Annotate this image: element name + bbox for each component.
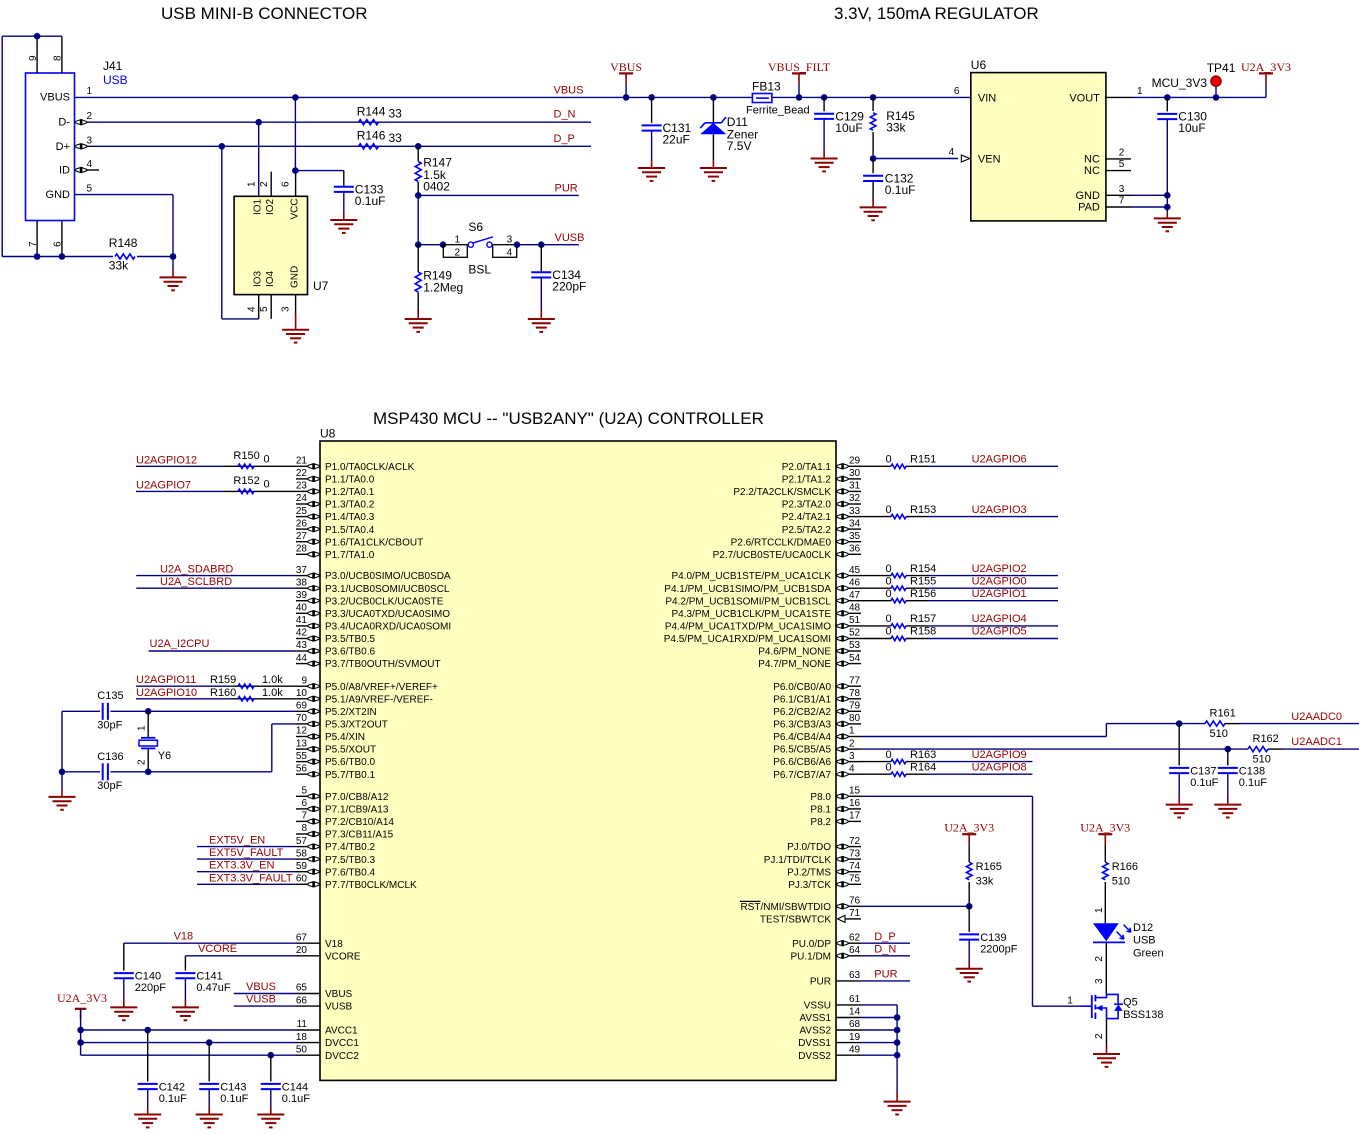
svg-text:NC: NC [1084, 165, 1100, 177]
svg-text:11: 11 [297, 1019, 308, 1030]
resistor R149 [417, 245, 419, 272]
J41 pin2 glyph [75, 120, 88, 124]
wire R147 to VUSB row [417, 195, 419, 244]
svg-text:IO3: IO3 [253, 270, 264, 287]
svg-text:7: 7 [1119, 196, 1125, 207]
svg-text:D_N: D_N [554, 109, 576, 121]
ground U6 [1166, 207, 1168, 212]
U8 pin 56 P5.7/TB0.1 [296, 773, 307, 775]
capacitor C139 [968, 906, 970, 932]
svg-text:10uF: 10uF [1178, 121, 1205, 135]
U8 pin 36 P2.7/UCB0STE/UCA0CLK [849, 553, 861, 555]
U8 pin 49 DVSS2 [836, 1054, 861, 1056]
capacitor C130 [1164, 94, 1171, 101]
svg-text:0: 0 [886, 575, 892, 587]
svg-text:23: 23 [296, 481, 308, 492]
wire VEN net [873, 158, 958, 160]
svg-text:0: 0 [886, 626, 892, 638]
resistor R154 [861, 575, 891, 577]
net VBUS MCU [234, 993, 296, 995]
svg-text:U2AGPIO4: U2AGPIO4 [972, 613, 1027, 625]
svg-text:4: 4 [949, 147, 955, 158]
svg-text:6: 6 [301, 798, 307, 809]
U8 pin 32 P2.3/TA2.0 [849, 503, 861, 505]
svg-text:62: 62 [849, 932, 861, 943]
svg-text:61: 61 [849, 994, 861, 1005]
svg-text:PU.0/DP: PU.0/DP [792, 939, 831, 950]
wire D_N net [88, 121, 592, 123]
svg-text:C135: C135 [97, 690, 123, 702]
svg-text:D+: D+ [56, 141, 70, 153]
junction VCC C133 [292, 167, 299, 174]
svg-text:1.0k: 1.0k [262, 674, 283, 686]
U8 pin 46 P4.1/PM_UCB1SIMO/PM_UCB1SDA [849, 587, 861, 589]
svg-text:510: 510 [1210, 728, 1228, 740]
capacitor C135 [62, 710, 100, 712]
svg-text:GND: GND [290, 266, 301, 288]
svg-text:PU.1/DM: PU.1/DM [790, 951, 831, 962]
svg-text:P8.2: P8.2 [810, 817, 831, 828]
U8 pin 2 P6.5/CB5/A5 [849, 748, 861, 750]
U8 pin 45 P4.0/PM_UCB1STE/PM_UCA1CLK [849, 575, 861, 577]
U6 pin1 VOUT [1106, 96, 1131, 98]
svg-text:0: 0 [886, 749, 892, 761]
svg-text:55: 55 [296, 751, 308, 762]
U8 pin 50 DVCC2 [296, 1054, 320, 1056]
svg-text:0: 0 [886, 504, 892, 516]
svg-text:30pF: 30pF [97, 780, 122, 792]
svg-text:39: 39 [296, 590, 308, 601]
svg-text:U2AADC1: U2AADC1 [1291, 736, 1342, 748]
svg-text:R159: R159 [210, 674, 236, 686]
svg-text:C143: C143 [220, 1082, 246, 1094]
svg-text:P7.1/CB9/A13: P7.1/CB9/A13 [325, 805, 389, 816]
svg-text:3: 3 [87, 135, 93, 146]
capacitor C134 [540, 245, 542, 273]
svg-text:IO1: IO1 [253, 198, 264, 215]
svg-text:C137: C137 [1190, 766, 1216, 778]
svg-text:U2AGPIO10: U2AGPIO10 [136, 687, 197, 699]
svg-text:51: 51 [849, 615, 861, 626]
svg-text:33: 33 [389, 131, 403, 145]
U7 pin4 lead IO3 [258, 295, 260, 319]
svg-text:68: 68 [849, 1019, 861, 1030]
J41 pin4 glyph ID stub [75, 168, 88, 172]
svg-text:72: 72 [849, 836, 861, 847]
svg-text:BSS138: BSS138 [1123, 1009, 1163, 1021]
svg-text:50: 50 [296, 1044, 308, 1055]
svg-text:74: 74 [849, 861, 861, 872]
wire VBUS to VCC [294, 97, 296, 170]
U6 pin4 VEN glyph [961, 155, 970, 162]
svg-text:5: 5 [1119, 159, 1125, 170]
svg-text:P3.2/UCB0CLK/UCA0STE: P3.2/UCB0CLK/UCA0STE [325, 596, 444, 607]
svg-text:P7.7/TB0CLK/MCLK: P7.7/TB0CLK/MCLK [325, 880, 417, 891]
svg-text:33: 33 [849, 506, 861, 517]
U8 pin 24 P1.3/TA0.2 [296, 503, 307, 505]
svg-text:P5.4/XIN: P5.4/XIN [325, 732, 365, 743]
svg-text:8: 8 [301, 823, 307, 834]
svg-text:3: 3 [507, 234, 513, 245]
svg-text:R148: R148 [109, 236, 138, 250]
svg-text:2200pF: 2200pF [980, 944, 1018, 956]
svg-text:0: 0 [264, 479, 270, 491]
svg-text:P7.0/CB8/A12: P7.0/CB8/A12 [325, 792, 389, 803]
svg-text:0.47uF: 0.47uF [196, 982, 231, 994]
svg-text:16: 16 [849, 798, 861, 809]
svg-text:VCORE: VCORE [325, 951, 361, 962]
svg-text:Q5: Q5 [1123, 996, 1138, 1008]
net U2AGPIO11 wire [136, 685, 232, 687]
svg-text:75: 75 [849, 874, 861, 885]
svg-text:57: 57 [296, 836, 308, 847]
U8 pin 9 P5.0/A8/VREF+/VEREF+ [296, 685, 307, 687]
U8 pin 35 P2.6/RTCCLK/DMAE0 [849, 541, 861, 543]
RST overline [740, 900, 761, 902]
svg-text:33k: 33k [976, 876, 994, 888]
svg-text:0: 0 [886, 563, 892, 575]
wire D_P net [88, 145, 592, 147]
U8 pin 7 P7.2/CB10/A14 [296, 820, 307, 822]
svg-text:P3.6/TB0.6: P3.6/TB0.6 [325, 647, 375, 658]
svg-text:6: 6 [281, 181, 292, 187]
resistor R162 [1228, 748, 1248, 750]
U8 pin 34 P2.5/TA2.2 [849, 528, 861, 530]
U8 pin 40 P3.3/UCA0TXD/UCA0SIMO [296, 612, 307, 614]
resistor R155 [861, 587, 891, 589]
junction J41 pin6 [59, 253, 66, 260]
capacitor C142 [144, 1027, 151, 1034]
svg-text:19: 19 [849, 1032, 861, 1043]
U8 pin 14 AVSS1 [836, 1017, 861, 1019]
svg-text:VBUS: VBUS [325, 989, 353, 1000]
svg-text:17: 17 [849, 811, 861, 822]
U8 pin 26 P1.5/TA0.4 [296, 528, 307, 530]
svg-text:P6.7/CB7/A7: P6.7/CB7/A7 [773, 770, 831, 781]
U8 pin 33 P2.4/TA2.1 [849, 516, 861, 518]
svg-text:60: 60 [296, 874, 308, 885]
U8 pin 76 RST/NMI/SBWTDIO [849, 905, 861, 907]
svg-text:TP41: TP41 [1207, 61, 1236, 75]
svg-text:S6: S6 [468, 220, 483, 234]
U8 pin 53 P4.6/PM_NONE [849, 650, 861, 652]
svg-text:U2AGPIO8: U2AGPIO8 [972, 761, 1027, 773]
svg-text:EXT3.3V_EN: EXT3.3V_EN [209, 860, 274, 872]
svg-text:3: 3 [1119, 184, 1125, 195]
svg-text:2: 2 [1094, 1033, 1105, 1039]
svg-text:1: 1 [455, 234, 461, 245]
svg-text:C142: C142 [159, 1082, 185, 1094]
svg-text:C136: C136 [97, 751, 123, 763]
J41 pin 7 lead [36, 221, 38, 257]
svg-text:D_P: D_P [874, 931, 895, 943]
U8 pin 57 P7.4/TB0.2 [296, 846, 307, 848]
svg-text:P3.3/UCA0TXD/UCA0SIMO: P3.3/UCA0TXD/UCA0SIMO [325, 609, 450, 620]
svg-text:VCORE: VCORE [198, 943, 237, 955]
junction J41 pin7 [34, 253, 41, 260]
svg-text:P5.5/XOUT: P5.5/XOUT [325, 745, 376, 756]
svg-text:IO4: IO4 [265, 270, 276, 287]
net EXT5V_FAULT [197, 858, 296, 860]
U8 pin 42 P3.5/TB0.5 [296, 638, 307, 640]
resistor R153 [861, 516, 891, 518]
svg-text:48: 48 [849, 603, 861, 614]
svg-text:29: 29 [849, 456, 861, 467]
capacitor C136 [62, 771, 100, 773]
svg-text:44: 44 [296, 653, 308, 664]
svg-text:P2.3/TA2.0: P2.3/TA2.0 [782, 500, 832, 511]
svg-text:R156: R156 [910, 588, 936, 600]
svg-text:P6.6/CB6/A6: P6.6/CB6/A6 [773, 757, 831, 768]
transistor Q5 BSS138 [1081, 1005, 1092, 1007]
resistor R166 [1104, 844, 1106, 862]
net U2AGPIO12 wire [136, 465, 224, 467]
ground C131 [651, 131, 653, 160]
net EXT5V_EN [197, 846, 296, 848]
U8 pin 67 V18 [296, 942, 320, 944]
svg-text:0: 0 [886, 454, 892, 466]
wire VBUS net [75, 96, 296, 98]
wire DVCC2 [81, 1054, 296, 1056]
svg-text:P1.5/TA0.4: P1.5/TA0.4 [325, 525, 375, 536]
svg-text:79: 79 [849, 701, 861, 712]
svg-text:28: 28 [296, 544, 308, 555]
svg-text:U2AGPIO3: U2AGPIO3 [972, 504, 1027, 516]
svg-text:P1.6/TA1CLK/CBOUT: P1.6/TA1CLK/CBOUT [325, 537, 423, 548]
svg-text:U2AGPIO2: U2AGPIO2 [972, 563, 1027, 575]
U8 pin 77 P6.0/CB0/A0 [849, 685, 861, 687]
wire Q5 source to ground [1106, 1019, 1108, 1046]
svg-text:U8: U8 [320, 427, 336, 441]
svg-text:U2AADC0: U2AADC0 [1291, 711, 1342, 723]
svg-text:BSL: BSL [468, 263, 491, 277]
svg-text:Y6: Y6 [158, 750, 171, 762]
svg-text:0.1uF: 0.1uF [1239, 777, 1267, 789]
svg-text:0.1uF: 0.1uF [159, 1093, 187, 1105]
wire LED to Q5 [1105, 942, 1107, 994]
svg-text:AVSS2: AVSS2 [800, 1026, 832, 1037]
svg-text:P4.3/PM_UCB1CLK/PM_UCA1STE: P4.3/PM_UCB1CLK/PM_UCA1STE [671, 609, 831, 620]
svg-text:P6.5/CB5/A5: P6.5/CB5/A5 [773, 745, 831, 756]
resistor R146 [359, 144, 379, 149]
svg-text:18: 18 [296, 1032, 308, 1043]
net D_P right [861, 942, 910, 944]
net D_N right [861, 955, 910, 957]
U8 pin 30 P2.1/TA1.2 [849, 478, 861, 480]
svg-text:VBUS: VBUS [610, 60, 642, 74]
svg-text:R160: R160 [210, 687, 236, 699]
wire DVCC1 [81, 1042, 296, 1044]
svg-text:0: 0 [264, 454, 270, 466]
svg-text:37: 37 [296, 565, 308, 576]
U6 pin7 PAD [1106, 206, 1131, 208]
wire P6.5 to R162 [861, 748, 1228, 750]
svg-text:78: 78 [849, 688, 861, 699]
svg-text:1: 1 [247, 181, 258, 187]
svg-text:NC: NC [1084, 153, 1100, 165]
svg-text:6: 6 [53, 241, 64, 247]
svg-text:P7.3/CB11/A15: P7.3/CB11/A15 [325, 830, 394, 841]
svg-text:R158: R158 [910, 626, 936, 638]
svg-text:65: 65 [296, 983, 308, 994]
svg-text:GND: GND [1075, 190, 1100, 202]
U8 pin 47 P4.2/PM_UCB1SOMI/PM_UCB1SCL [849, 600, 861, 602]
svg-text:PAD: PAD [1078, 202, 1100, 214]
svg-text:P6.1/CB1/A1: P6.1/CB1/A1 [773, 694, 831, 705]
svg-text:5: 5 [87, 184, 93, 195]
capacitor C141 [184, 956, 186, 971]
svg-text:P5.0/A8/VREF+/VEREF+: P5.0/A8/VREF+/VEREF+ [325, 682, 438, 693]
svg-text:IO2: IO2 [265, 198, 276, 215]
net U2AGPIO6 [928, 465, 1058, 467]
svg-text:U2AGPIO0: U2AGPIO0 [972, 575, 1027, 587]
svg-text:C144: C144 [282, 1082, 308, 1094]
U8 pin 19 DVSS1 [836, 1042, 861, 1044]
svg-text:P2.0/TA1.1: P2.0/TA1.1 [782, 462, 832, 473]
U7 pin2 stub IO2 [270, 172, 272, 197]
U8 pin 10 P5.1/A9/VREF-/VEREF- [296, 698, 307, 700]
svg-text:0.1uF: 0.1uF [282, 1093, 310, 1105]
svg-text:VIN: VIN [978, 92, 996, 104]
svg-text:U2A_3V3: U2A_3V3 [944, 821, 994, 835]
U8 pin 29 P2.0/TA1.1 [849, 465, 861, 467]
junction XT2IN [145, 708, 152, 715]
svg-text:P3.5/TB0.5: P3.5/TB0.5 [325, 634, 375, 645]
capacitor C129 [821, 94, 828, 101]
U8 pin 54 P4.7/PM_NONE [849, 663, 861, 665]
U8 pin 58 P7.5/TB0.3 [296, 858, 307, 860]
U8 pin 11 AVCC1 [296, 1029, 320, 1031]
svg-text:P7.4/TB0.2: P7.4/TB0.2 [325, 842, 375, 853]
ground C132 [872, 181, 874, 199]
svg-text:0.1uF: 0.1uF [220, 1093, 248, 1105]
svg-text:21: 21 [296, 456, 308, 467]
svg-text:220pF: 220pF [135, 982, 166, 994]
svg-text:3: 3 [1094, 978, 1105, 984]
U8 pin 23 P1.2/TA0.1 [296, 490, 307, 492]
svg-text:42: 42 [296, 628, 308, 639]
svg-text:P7.6/TB0.4: P7.6/TB0.4 [325, 867, 375, 878]
svg-text:U7: U7 [313, 279, 329, 293]
junction C134 [538, 241, 545, 248]
svg-text:4: 4 [247, 306, 258, 312]
svg-text:C141: C141 [196, 971, 222, 983]
U8 pin 18 DVCC1 [296, 1042, 320, 1044]
svg-text:C138: C138 [1239, 766, 1265, 778]
svg-text:R146: R146 [357, 128, 386, 142]
svg-text:0: 0 [886, 588, 892, 600]
svg-text:U6: U6 [971, 58, 987, 72]
ground J41 [172, 257, 174, 270]
svg-text:EXT5V_EN: EXT5V_EN [209, 835, 265, 847]
U8 pin 22 P1.1/TA0.0 [296, 478, 307, 480]
svg-text:DVCC1: DVCC1 [325, 1038, 359, 1049]
U8 pin 79 P6.2/CB2/A2 [849, 710, 861, 712]
net U2AGPIO0 [928, 587, 1058, 589]
svg-text:1: 1 [1137, 86, 1143, 97]
svg-text:32: 32 [849, 493, 861, 504]
ground U7 pin3 [295, 313, 297, 330]
ground crystal [61, 772, 63, 789]
svg-text:VUSB: VUSB [555, 232, 585, 244]
net U2AGPIO3 [928, 516, 1058, 518]
svg-text:63: 63 [849, 970, 861, 981]
svg-text:34: 34 [849, 518, 861, 529]
capacitor C137 [1178, 724, 1180, 766]
svg-text:30pF: 30pF [97, 719, 122, 731]
svg-text:P1.2/TA0.1: P1.2/TA0.1 [325, 487, 375, 498]
U8 pin 51 P4.4/PM_UCA1TXD/PM_UCA1SIMO [849, 625, 861, 627]
J41 pin3 glyph [75, 144, 88, 148]
svg-text:R162: R162 [1253, 733, 1279, 745]
svg-text:PJ.0/TDO: PJ.0/TDO [787, 842, 831, 853]
U8 pin 43 P3.6/TB0.6 [296, 650, 307, 652]
svg-text:PJ.1/TDI/TCLK: PJ.1/TDI/TCLK [764, 855, 832, 866]
svg-text:P6.4/CB4/A4: P6.4/CB4/A4 [773, 732, 831, 743]
U8 pin 70 P5.3/XT2OUT [296, 723, 307, 725]
svg-text:40: 40 [296, 603, 308, 614]
svg-text:27: 27 [296, 531, 308, 542]
U8 pin 80 P6.3/CB3/A3 [849, 723, 861, 725]
svg-text:46: 46 [849, 577, 861, 588]
svg-text:U2A_SCLBRD: U2A_SCLBRD [160, 576, 232, 588]
svg-text:VBUS: VBUS [554, 84, 584, 96]
U8 pin 41 P3.4/UCA0RXD/UCA0SOMI [296, 625, 307, 627]
U8 pin 15 P8.0 [849, 795, 861, 797]
resistor R161 [1179, 723, 1205, 725]
svg-text:C139: C139 [980, 932, 1006, 944]
net VUSB MCU [234, 1005, 296, 1007]
U8 pin 55 P5.6/TB0.0 [296, 761, 307, 763]
svg-text:26: 26 [296, 518, 308, 529]
capacitor C138 [1227, 749, 1229, 765]
resistor R148 [115, 254, 135, 259]
svg-text:P7.2/CB10/A14: P7.2/CB10/A14 [325, 817, 394, 828]
svg-text:0: 0 [886, 613, 892, 625]
connector J41 outline [26, 73, 75, 221]
svg-text:D12: D12 [1133, 922, 1153, 934]
U8 pin 12 P5.4/XIN [296, 736, 307, 738]
svg-text:U2AGPIO5: U2AGPIO5 [972, 626, 1027, 638]
svg-text:J41: J41 [103, 59, 123, 73]
svg-text:7: 7 [301, 811, 307, 822]
svg-text:35: 35 [849, 531, 861, 542]
U8 pin 3 P6.6/CB6/A6 [849, 761, 861, 763]
crystal Y6 [147, 711, 149, 737]
svg-text:5: 5 [301, 786, 307, 797]
wire VUSB net [541, 244, 579, 246]
net U2AGPIO5 [928, 638, 1058, 640]
svg-text:P4.0/PM_UCB1STE/PM_UCA1CLK: P4.0/PM_UCB1STE/PM_UCA1CLK [671, 571, 831, 582]
svg-text:D-: D- [58, 117, 70, 129]
svg-text:P2.2/TA2CLK/SMCLK: P2.2/TA2CLK/SMCLK [733, 487, 831, 498]
junction VUSB left [415, 241, 422, 248]
net U2A_I2CPU [149, 650, 296, 652]
svg-text:PUR: PUR [810, 977, 831, 988]
svg-text:67: 67 [296, 932, 308, 943]
U8 pin 1 P6.4/CB4/A4 [849, 736, 861, 738]
U8 pin 62 PU.0/DP [849, 942, 861, 944]
svg-text:10: 10 [296, 688, 308, 699]
U8 pin 6 P7.1/CB9/A13 [296, 808, 307, 810]
svg-text:71: 71 [849, 908, 861, 919]
svg-text:VOUT: VOUT [1069, 92, 1100, 104]
svg-text:10uF: 10uF [835, 121, 862, 135]
U8 pin 71 TEST/SBWTCK [845, 918, 861, 920]
svg-text:U2A_3V3: U2A_3V3 [1080, 821, 1130, 835]
capacitor C132 [872, 159, 874, 174]
resistor R150 [238, 464, 254, 468]
